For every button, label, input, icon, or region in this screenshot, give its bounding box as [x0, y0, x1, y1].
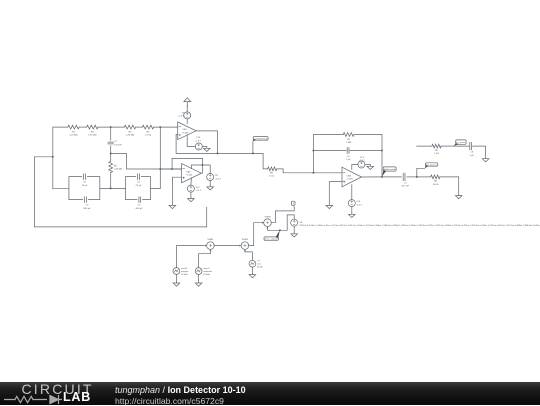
- node top rail A: [110, 126, 112, 128]
- node mid branch: [110, 153, 112, 155]
- capacitor C8: [469, 142, 474, 156]
- svg-text:+2.5 V: +2.5 V: [359, 160, 366, 162]
- CircuitLab logo: [0, 382, 100, 405]
- svg-text:10 kHz: 10 kHz: [181, 274, 188, 276]
- voltage source VF2 noise2: [195, 268, 213, 276]
- svg-text:800 µF: 800 µF: [136, 208, 144, 210]
- wire R8 to ground: [440, 177, 459, 195]
- resistor R6: [268, 167, 277, 178]
- wire node to R8: [417, 176, 431, 178]
- wire R5 to mid rail: [110, 173, 112, 189]
- voltage source V3: [207, 174, 222, 181]
- capacitor C5: [136, 197, 144, 210]
- ground U3 V+ supply: [367, 165, 374, 170]
- wire U3 fb mid rail left: [313, 150, 346, 152]
- voltage source V1: [178, 112, 191, 119]
- svg-text:test_signal: test_signal: [265, 238, 279, 241]
- svg-text:C8: C8: [470, 152, 474, 154]
- resistor R4: [142, 125, 153, 137]
- ground U2 V- supply: [188, 198, 195, 202]
- node U3 output junction: [381, 176, 383, 178]
- svg-text:noise2: noise2: [203, 268, 210, 270]
- ground sine: [249, 274, 256, 278]
- wire U3 fb left vertical: [312, 135, 314, 173]
- svg-text:R4: R4: [147, 132, 151, 134]
- wire U3 fb mid rail right: [350, 150, 382, 152]
- svg-text:10 kHz: 10 kHz: [203, 274, 210, 276]
- wire V4 to ground: [190, 192, 192, 198]
- svg-text:+2.5 V: +2.5 V: [215, 178, 222, 180]
- wire U3 fb top rail right: [354, 135, 382, 177]
- svg-text:850 µF: 850 µF: [84, 208, 92, 210]
- capacitor box C2/C3 frame: [69, 177, 126, 200]
- capacitor box C4/C5 frame: [126, 177, 161, 200]
- net flag filtered: [382, 167, 397, 177]
- ground U3 plus: [326, 204, 333, 208]
- wire R9 to C8: [441, 145, 469, 147]
- svg-text:TL081: TL081: [347, 179, 354, 181]
- svg-text:R9: R9: [435, 150, 439, 152]
- wire input loop from summer to ladder: [34, 157, 206, 227]
- wire R6 to U3 minus: [277, 169, 342, 173]
- summer SUM3: [262, 216, 271, 228]
- wire R2 to node: [98, 126, 124, 128]
- wire U1 output rail: [218, 152, 264, 154]
- summer SUM1: [205, 239, 214, 251]
- wire U3 output: [362, 176, 383, 178]
- wire U3 fb top rail left: [313, 134, 343, 136]
- svg-text:1.2 kΩ: 1.2 kΩ: [145, 135, 152, 137]
- node U3 fb mid-left: [312, 150, 314, 152]
- svg-text:sine: sine: [257, 264, 262, 266]
- resistor R5: [109, 161, 123, 172]
- wire U2 minus input: [160, 168, 181, 170]
- ground U3 V- supply: [349, 214, 356, 218]
- node U2 supply crossing: [202, 164, 204, 166]
- wire right vertical of ladder: [159, 127, 161, 188]
- svg-text:lo_pass: lo_pass: [457, 142, 467, 144]
- svg-text:R5: R5: [114, 165, 118, 167]
- svg-text:SUM1: SUM1: [207, 239, 214, 241]
- ground PWL: [291, 233, 298, 237]
- capacitor C4: [136, 174, 142, 187]
- svg-text:60 Hz: 60 Hz: [257, 267, 263, 269]
- wire U3 V+ stub: [352, 165, 358, 170]
- wire U1 feedback box: [176, 131, 217, 154]
- svg-text:V12: V12: [196, 187, 201, 189]
- svg-text:10 Ω: 10 Ω: [269, 176, 274, 178]
- svg-text:25 µF: 25 µF: [136, 185, 142, 187]
- resistor R1: [68, 125, 79, 137]
- svg-text:1.43 MΩ: 1.43 MΩ: [88, 135, 97, 137]
- svg-text:-2.5 V: -2.5 V: [196, 190, 202, 192]
- wire U2 V+ rail: [191, 165, 210, 174]
- svg-text:OA3: OA3: [347, 174, 352, 177]
- svg-text:SUM3: SUM3: [264, 216, 271, 218]
- summer SUM2: [239, 239, 248, 251]
- svg-text:PWL(0,0,4.18m 1,4.68m 0,41m 1,: PWL(0,0,4.18m 1,4.68m 0,41m 1,41.5m 0,83…: [300, 225, 540, 227]
- resistor R7: [343, 133, 354, 145]
- wire V2 to ground: [202, 146, 207, 148]
- svg-text:R7: R7: [347, 139, 351, 141]
- wire box1 left+frame: [53, 188, 69, 190]
- svg-text:-2.5 V: -2.5 V: [195, 140, 201, 142]
- node U3 minus junction: [312, 172, 314, 174]
- wire noise2 to ground: [198, 274, 200, 282]
- op-amp U3: [342, 167, 362, 187]
- wire U2 plus to ground: [172, 177, 181, 204]
- ground U1 V-: [204, 147, 211, 152]
- wire noise1 to ground: [175, 274, 177, 282]
- wire V6 to ground: [351, 207, 353, 214]
- wire U1 V- stub: [187, 135, 195, 146]
- power supply arrow +V: [184, 98, 191, 107]
- voltage source V7 sine: [249, 260, 263, 268]
- voltage source VF1 noise1: [173, 268, 189, 276]
- wire SUM2 to SUM3: [249, 223, 262, 246]
- wire sine to ground: [251, 267, 253, 274]
- wire C7 to node: [407, 176, 417, 178]
- svg-text:1 MΩ: 1 MΩ: [346, 142, 352, 144]
- node U2 minus junction: [171, 168, 173, 170]
- svg-text:OA1: OA1: [182, 128, 187, 131]
- wire U1 V+ stub: [186, 119, 188, 124]
- wire U2 feedback: [171, 158, 173, 169]
- wire U1 plus stub: [176, 134, 178, 136]
- wire R3-R4: [136, 126, 143, 128]
- resistor R3: [124, 125, 135, 137]
- svg-text:V8: V8: [300, 222, 303, 224]
- svg-text:V7: V7: [257, 261, 260, 263]
- node mid rail A: [110, 187, 112, 189]
- footer title text: [115, 385, 246, 406]
- capacitor C6: [346, 148, 351, 162]
- capacitor C2: [82, 174, 88, 187]
- wire U2 V- stub: [190, 178, 193, 185]
- wire C1 to R5: [110, 146, 112, 162]
- wire R4 to opamp U1: [154, 126, 178, 128]
- resistor R8: [431, 175, 440, 186]
- svg-text:C2: C2: [83, 182, 87, 184]
- svg-text:R3: R3: [129, 132, 133, 134]
- footer bar: [0, 382, 540, 405]
- wire C8 to ground: [473, 146, 486, 158]
- node U3 fb mid-right: [381, 150, 383, 152]
- wire sine up to SUM2: [245, 252, 253, 261]
- ground U2 plus: [169, 204, 176, 209]
- svg-text:R8: R8: [434, 181, 438, 183]
- svg-text:+2.5 V: +2.5 V: [178, 116, 185, 118]
- wire amplified flag stem: [252, 141, 254, 153]
- wire U3 plus to ground: [329, 182, 342, 205]
- svg-text:filtered: filtered: [384, 168, 397, 171]
- svg-text:C6: C6: [347, 156, 351, 158]
- node input junction: [52, 156, 54, 158]
- voltage source V8 PWL: [291, 219, 540, 227]
- op-amp U2: [182, 164, 202, 183]
- svg-text:V10: V10: [196, 137, 201, 139]
- ground lo_pass: [482, 158, 489, 162]
- node test_signal junction: [279, 229, 281, 231]
- net flag lo_pass: [454, 140, 467, 146]
- svg-text:C1: C1: [114, 141, 118, 143]
- ground U2 V+ supply: [207, 186, 214, 190]
- svg-text:1.43 MΩ: 1.43 MΩ: [114, 169, 123, 171]
- net flag out bubble: [291, 201, 295, 207]
- voltage source V6: [348, 200, 362, 207]
- net flag amplified: [253, 137, 269, 142]
- svg-text:TL081: TL081: [182, 132, 189, 134]
- wire noise1 up to SUM1: [176, 246, 204, 268]
- resistor R2: [87, 125, 98, 137]
- net flag hi_pass: [425, 163, 438, 169]
- svg-text:1.59 nF: 1.59 nF: [114, 144, 122, 146]
- node U1 feedback junction: [217, 152, 219, 154]
- op-amp U1: [178, 122, 197, 140]
- net flag test_signal: [264, 230, 280, 240]
- wire PWL to ground: [293, 226, 295, 233]
- logo resistor-diode squiggle: [0, 382, 100, 405]
- svg-text:triangle: triangle: [181, 270, 189, 273]
- svg-text:noise1: noise1: [181, 268, 188, 270]
- resistor R9: [432, 144, 441, 155]
- wire hi_pass stub: [417, 168, 425, 177]
- svg-text:1.43 MΩ: 1.43 MΩ: [69, 135, 78, 137]
- ground R8: [455, 195, 462, 199]
- wire V1 to supply arrow: [186, 105, 188, 112]
- svg-text:7 µF: 7 µF: [346, 159, 351, 161]
- svg-text:sawtooth: sawtooth: [203, 270, 213, 273]
- wire U3 out to C7: [382, 176, 401, 178]
- svg-text:10 kΩ: 10 kΩ: [433, 184, 439, 186]
- svg-text:R6: R6: [270, 172, 274, 174]
- capacitor C1: [108, 141, 122, 146]
- wire branch to U2 minus: [111, 154, 182, 170]
- svg-text:V13: V13: [360, 157, 365, 159]
- svg-text:46.7 nF: 46.7 nF: [402, 186, 410, 188]
- wire lo_pass input: [417, 145, 432, 147]
- wire PWL to SUM3 bottom: [268, 215, 295, 230]
- capacitor C3: [84, 197, 92, 210]
- wire U3 V- stub: [351, 185, 353, 200]
- svg-text:TL081: TL081: [186, 175, 193, 177]
- wire SUM1 to SUM2: [214, 245, 239, 247]
- node amplified flag junction: [252, 152, 254, 154]
- svg-text:1.43 MΩ: 1.43 MΩ: [126, 135, 135, 137]
- svg-text:amplified: amplified: [254, 138, 268, 140]
- svg-text:-2.5 V: -2.5 V: [356, 204, 362, 206]
- wire top rail segment 1: [53, 126, 68, 128]
- voltage source V4: [187, 185, 202, 192]
- node top rail B: [159, 126, 161, 128]
- svg-text:C7: C7: [404, 182, 408, 184]
- wire V5 to ground: [365, 164, 370, 166]
- voltage source V5: [358, 157, 366, 168]
- svg-text:R1: R1: [72, 132, 76, 134]
- svg-text:10 µF: 10 µF: [82, 185, 88, 187]
- svg-text:C4: C4: [137, 182, 141, 184]
- svg-text:1 kΩ: 1 kΩ: [434, 153, 439, 155]
- svg-text:C5: C5: [138, 205, 142, 207]
- svg-text:1 µF: 1 µF: [469, 155, 474, 157]
- svg-text:C3: C3: [86, 205, 90, 207]
- wire V3 to ground: [209, 181, 211, 187]
- svg-text:SUM2: SUM2: [242, 239, 249, 241]
- node hi_pass junction: [416, 176, 418, 178]
- svg-text:V14: V14: [356, 201, 361, 203]
- node branch-vertical junction: [159, 168, 161, 170]
- ground noise1: [173, 282, 180, 286]
- svg-text:hi_pass: hi_pass: [426, 164, 438, 166]
- wire ladder left vertical: [52, 127, 54, 189]
- wire R1-R2: [79, 126, 86, 128]
- capacitor C7: [402, 173, 410, 187]
- svg-text:R2: R2: [91, 132, 95, 134]
- wire U1 out to R6: [263, 153, 268, 169]
- wire U2 feedback rail: [172, 158, 202, 173]
- wire node A down to C1: [110, 127, 112, 140]
- ground noise2: [195, 282, 202, 286]
- voltage source V2: [195, 137, 202, 150]
- svg-text:V11: V11: [215, 175, 220, 177]
- svg-text:OA2: OA2: [186, 171, 191, 174]
- wire SUM3 output: [271, 207, 294, 222]
- wire noise2 up to SUM1: [199, 252, 211, 268]
